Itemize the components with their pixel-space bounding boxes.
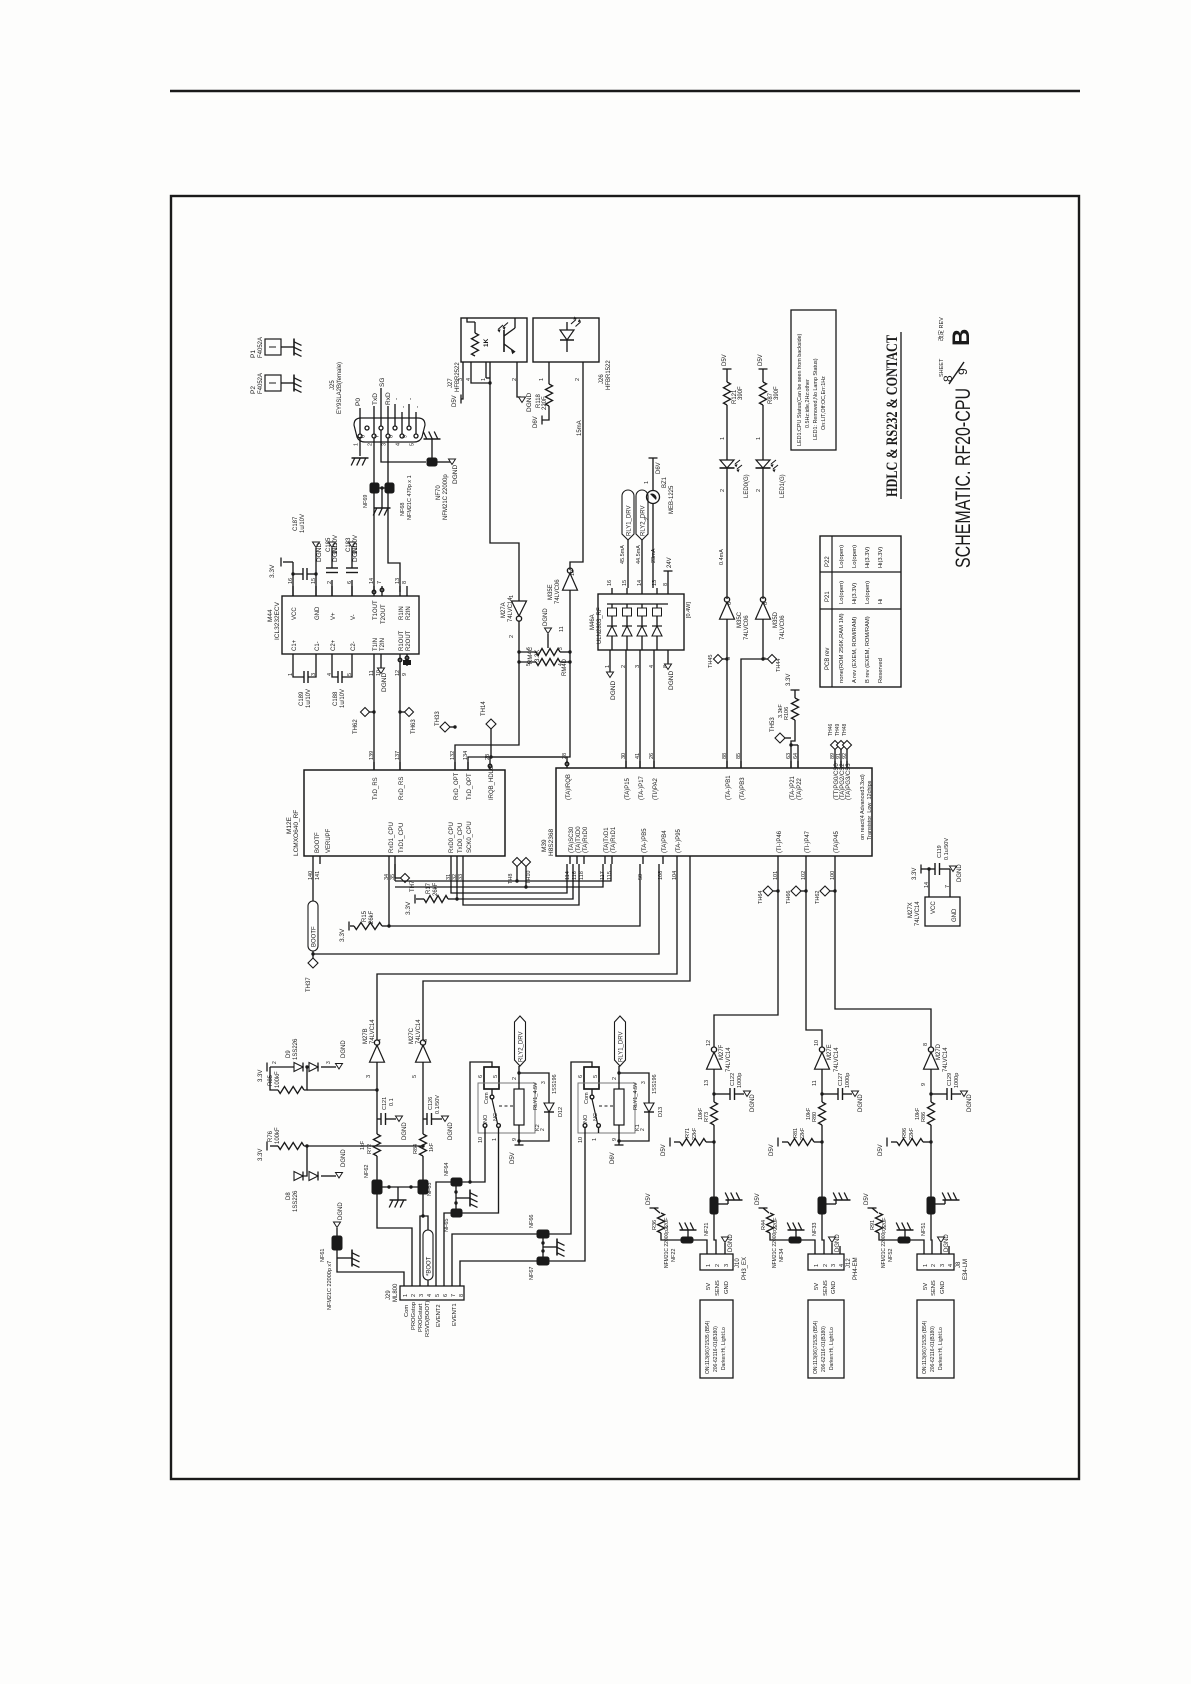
svg-text:4: 4 bbox=[396, 443, 402, 446]
ground (chassis) at NF51 bbox=[935, 1203, 945, 1205]
resistor R85 100kF bbox=[304, 1067, 307, 1090]
svg-text:NF65: NF65 bbox=[444, 1219, 450, 1232]
svg-text:*BOOT: *BOOT bbox=[427, 1256, 433, 1276]
pin 3 of M46A bbox=[639, 650, 641, 658]
svg-text:1000p: 1000p bbox=[954, 1073, 960, 1088]
svg-text:RxD0_CPU: RxD0_CPU bbox=[449, 822, 455, 853]
wire M35E input from TxD_OPT bbox=[468, 590, 570, 770]
svg-text:1u/10V: 1u/10V bbox=[340, 689, 346, 708]
svg-text:NF51: NF51 bbox=[921, 1223, 927, 1236]
relay K1 outline bbox=[578, 1083, 635, 1133]
svg-text:P0: P0 bbox=[355, 398, 362, 406]
svg-text:PROGstart: PROGstart bbox=[418, 1303, 424, 1332]
wire GND pin to DGND bbox=[315, 574, 317, 596]
wire M39 pin104 to M27B bbox=[377, 864, 677, 1040]
svg-text:NO: NO bbox=[483, 1114, 489, 1123]
pin 8 of M46A bbox=[667, 588, 669, 594]
DGND above NF61 bbox=[336, 1228, 338, 1236]
svg-text:12: 12 bbox=[706, 1040, 712, 1046]
svg-text:(TI-)P47: (TI-)P47 bbox=[805, 830, 811, 853]
power D6V at BZ1 bbox=[649, 457, 658, 459]
svg-text:9: 9 bbox=[403, 435, 409, 438]
svg-text:DGND: DGND bbox=[543, 608, 549, 626]
svg-text:SG: SG bbox=[379, 378, 386, 387]
power D5V / resistor R81 22kF bbox=[777, 1138, 779, 1147]
svg-text:R85: R85 bbox=[268, 1074, 274, 1086]
svg-text:3: 3 bbox=[641, 1081, 647, 1084]
wire pin34 / pin50 net bbox=[388, 864, 390, 926]
svg-text:50: 50 bbox=[638, 874, 644, 880]
wire pin4/pin1 junction bbox=[471, 372, 490, 383]
svg-text:NFM21C 470p x 1: NFM21C 470p x 1 bbox=[407, 475, 413, 520]
resistor R76 100kF bbox=[278, 1143, 304, 1150]
pin 114 ((TA)SC30) of M39 bbox=[569, 856, 571, 864]
svg-text:8: 8 bbox=[923, 1043, 929, 1046]
svg-text:5: 5 bbox=[526, 663, 532, 666]
svg-text:TH46: TH46 bbox=[828, 724, 834, 736]
page header rule bbox=[170, 90, 1080, 92]
capacitor C122 1000p bbox=[714, 1093, 730, 1095]
svg-text:T1IN: T1IN bbox=[373, 638, 379, 651]
svg-text:T2IN: T2IN bbox=[380, 638, 386, 651]
wire M27D input chain bbox=[930, 1069, 932, 1102]
pin 6 (V-) of M44 bbox=[351, 586, 353, 596]
svg-text:TH10: TH10 bbox=[526, 871, 532, 884]
ground (chassis) above NF70 bbox=[431, 439, 433, 458]
pin 2 (V+) of M44 bbox=[331, 586, 333, 596]
svg-text:Reserved: Reserved bbox=[878, 658, 884, 683]
dual diode D8 1SS226 bbox=[294, 1146, 307, 1176]
svg-text:M35D: M35D bbox=[773, 611, 779, 628]
pin 50 ((TA-)PB5) of M39 bbox=[642, 856, 644, 864]
svg-text:J12: J12 bbox=[846, 1258, 852, 1268]
svg-text:DGND: DGND bbox=[316, 543, 323, 562]
svg-text:D8: D8 bbox=[286, 1192, 292, 1200]
svg-text:RxD1_CPU: RxD1_CPU bbox=[389, 822, 395, 853]
test point TH44 bbox=[761, 657, 764, 660]
ground (chassis) at NF61 bbox=[337, 1257, 352, 1259]
wire bead taps to ground bbox=[542, 1238, 544, 1257]
svg-text:(TA)PG3/CS3: (TA)PG3/CS3 bbox=[846, 763, 852, 800]
svg-text:15mA: 15mA bbox=[577, 420, 583, 436]
svg-text:5V: 5V bbox=[814, 1283, 820, 1290]
svg-text:SENS: SENS bbox=[715, 1280, 721, 1296]
capacitor C188 1u/10V bbox=[332, 664, 338, 677]
wire M39 pin to M27D bbox=[835, 864, 931, 1047]
svg-text:C126: C126 bbox=[428, 1097, 434, 1110]
pin 9 of J25 bbox=[407, 426, 411, 430]
wire bbox=[281, 382, 294, 384]
DGND at M46A pin8 bbox=[667, 658, 669, 664]
svg-text:6: 6 bbox=[361, 435, 367, 438]
pin 4 of J27 bbox=[470, 362, 472, 372]
wire inside J27 bbox=[467, 318, 475, 322]
svg-text:9: 9 bbox=[612, 1138, 618, 1141]
svg-text:3.3V: 3.3V bbox=[786, 674, 792, 686]
svg-text:RxD_RS: RxD_RS bbox=[399, 777, 405, 800]
svg-text:6: 6 bbox=[526, 647, 532, 650]
svg-text:NC: NC bbox=[493, 1113, 499, 1121]
svg-text:MEB-1225: MEB-1225 bbox=[669, 485, 675, 514]
capacitor C187 1u/10V bbox=[293, 573, 303, 575]
svg-text:2: 2 bbox=[823, 1264, 829, 1267]
svg-text:GND: GND bbox=[724, 1281, 730, 1294]
svg-text:1: 1 bbox=[756, 437, 762, 440]
svg-text:132: 132 bbox=[450, 751, 456, 760]
svg-text:9: 9 bbox=[956, 368, 970, 375]
svg-text:DGND: DGND bbox=[526, 393, 533, 412]
svg-text:13: 13 bbox=[395, 578, 401, 584]
test point TH64 bbox=[776, 889, 779, 892]
diode D12 1SS196 bbox=[519, 1073, 549, 1103]
svg-text:BZ1: BZ1 bbox=[662, 476, 668, 488]
wire BOOTF to M39 pin108 bbox=[313, 864, 659, 954]
test point TH37 bbox=[312, 951, 314, 958]
svg-text:1000p: 1000p bbox=[737, 1073, 743, 1088]
wire bead to connector pin2 bbox=[931, 1214, 932, 1254]
wire bbox=[762, 405, 764, 460]
svg-text:H8S2368: H8S2368 bbox=[548, 829, 555, 856]
pin 115 ((TA)RxD1) of M39 bbox=[611, 856, 613, 864]
svg-text:M12E: M12E bbox=[286, 816, 293, 834]
wire J27 output to M27A bbox=[490, 362, 519, 601]
DGND at RM4 bbox=[545, 628, 552, 634]
wire K2 coil to D5V bbox=[518, 1125, 520, 1145]
DGND arrow bbox=[349, 542, 356, 548]
svg-text:3: 3 bbox=[382, 443, 388, 446]
svg-text:P1: P1 bbox=[250, 350, 257, 358]
DGND to connector pin3 bbox=[940, 1243, 942, 1254]
svg-text:22kF: 22kF bbox=[800, 1127, 806, 1140]
svg-text:SCHEMATIC. RF20-CPU: SCHEMATIC. RF20-CPU bbox=[952, 388, 975, 568]
power 3.3V rail bbox=[928, 869, 930, 890]
pin 63 ((TA-)P21) of M39 bbox=[790, 761, 792, 768]
pin 13 (R1IN) of M44 bbox=[399, 586, 401, 596]
ground (chassis) at NF64/NF65 bbox=[469, 1190, 471, 1207]
power 3.3V at R76 bbox=[266, 1142, 268, 1151]
svg-text:E34-LM: E34-LM bbox=[963, 1259, 969, 1280]
DGND arrow at NF70 bbox=[449, 459, 456, 465]
svg-text:(TA)PB3: (TA)PB3 bbox=[740, 777, 746, 800]
DGND at J27 pin2 bbox=[517, 372, 521, 397]
svg-text:R1OUT: R1OUT bbox=[399, 630, 405, 651]
svg-text:Lo(open): Lo(open) bbox=[865, 581, 871, 604]
ferrite bead NF68 bbox=[385, 483, 394, 493]
pin 30 ((TA)P15) of M39 bbox=[625, 761, 627, 768]
svg-text:139: 139 bbox=[369, 751, 375, 760]
svg-text:D5V: D5V bbox=[864, 1193, 870, 1205]
svg-text:VERUPF: VERUPF bbox=[326, 828, 332, 853]
note box LED1 CPU status bbox=[791, 310, 836, 450]
svg-text:R2OUT: R2OUT bbox=[406, 630, 412, 651]
power 24V at M46A pin8 bbox=[664, 570, 673, 572]
svg-text:D5V: D5V bbox=[722, 354, 728, 366]
ground (chassis) below beads bbox=[374, 507, 391, 509]
svg-text:SCK0_CPU: SCK0_CPU bbox=[467, 821, 473, 853]
DGND arrow bbox=[329, 542, 336, 548]
pin 100 ((TA)P45) of M39 bbox=[834, 856, 836, 864]
net label RLY1_DRV pill at K1 bbox=[615, 1016, 626, 1066]
DGND at T2IN bbox=[380, 664, 382, 668]
wire M39 pin to M27F bbox=[714, 864, 778, 1047]
test point TH8 bbox=[513, 858, 522, 867]
resistor R84 1kF bbox=[420, 1134, 427, 1156]
svg-text:C122: C122 bbox=[730, 1073, 736, 1086]
svg-text:3: 3 bbox=[940, 1264, 946, 1267]
svg-text:NFM21C 22000p x: NFM21C 22000p x bbox=[664, 1226, 670, 1268]
net label BOOTF pill bbox=[312, 864, 314, 901]
net label RLY1_DRV pill bbox=[622, 490, 634, 540]
resistor R91 220F bbox=[872, 1208, 878, 1213]
svg-text:J29: J29 bbox=[386, 1290, 392, 1300]
note box at J8 bbox=[917, 1300, 954, 1378]
svg-text:3.3V: 3.3V bbox=[258, 1070, 264, 1082]
svg-text:4: 4 bbox=[558, 663, 564, 666]
inverter gate M27A 74LVC14 bbox=[512, 601, 527, 616]
svg-text:NC: NC bbox=[593, 1113, 599, 1121]
wire M27E input chain bbox=[821, 1069, 823, 1102]
svg-text:M27E: M27E bbox=[827, 1044, 833, 1060]
pin 14 (T1OUT) of M44 bbox=[373, 586, 375, 596]
svg-text:TH14: TH14 bbox=[481, 701, 487, 716]
svg-text:EVENT1: EVENT1 bbox=[452, 1303, 458, 1326]
LED LED1(G) bbox=[756, 460, 770, 468]
relay K1 contact header bbox=[584, 1067, 599, 1089]
wire D9 node to M27B input bbox=[307, 1089, 377, 1091]
svg-text:3: 3 bbox=[541, 1081, 547, 1084]
ferrite bead NF65 bbox=[451, 1209, 462, 1217]
svg-text:11: 11 bbox=[559, 626, 565, 632]
svg-text:(TA)RxD0: (TA)RxD0 bbox=[583, 826, 589, 853]
pin 4 (C2+) of M44 bbox=[331, 654, 333, 664]
svg-text:NF64: NF64 bbox=[444, 1163, 450, 1176]
capacitor C185 1u/10V bbox=[331, 580, 333, 596]
svg-text:10: 10 bbox=[570, 570, 576, 576]
svg-text:3: 3 bbox=[326, 1061, 332, 1064]
wire to bead NF52 bbox=[879, 1233, 898, 1240]
LED LED0(G) bbox=[720, 460, 734, 468]
svg-text:V+: V+ bbox=[331, 612, 337, 620]
net label RxD bbox=[387, 406, 389, 434]
pin 102 ((TI-)P47) of M39 bbox=[805, 856, 807, 864]
svg-text:VCC: VCC bbox=[292, 607, 298, 620]
svg-text:NO: NO bbox=[583, 1114, 589, 1123]
svg-text:M27A: M27A bbox=[501, 602, 507, 618]
resistor R80 10kF bbox=[819, 1102, 826, 1125]
resistor 1K inside J27 bbox=[474, 322, 476, 333]
svg-text:NF61: NF61 bbox=[320, 1249, 326, 1262]
driver cells inside M46A bbox=[607, 603, 668, 605]
svg-text:M27F: M27F bbox=[719, 1044, 725, 1060]
IC M27X 74LVC14 power bbox=[925, 897, 960, 926]
connector P1 F4052A bbox=[265, 339, 281, 355]
inverter gate M27C 74LVC14 bbox=[420, 1040, 425, 1045]
svg-text:none(ROM 256K,RAM 1M): none(ROM 256K,RAM 1M) bbox=[839, 613, 845, 683]
svg-text:(TA)P45: (TA)P45 bbox=[834, 830, 840, 853]
ground (chassis) at P1 bbox=[293, 339, 295, 356]
svg-text:7: 7 bbox=[377, 581, 383, 584]
svg-text:D6V: D6V bbox=[533, 416, 539, 428]
svg-text:R96: R96 bbox=[902, 1128, 908, 1138]
svg-text:R2IN: R2IN bbox=[406, 606, 412, 620]
svg-text:3.3V: 3.3V bbox=[258, 1149, 264, 1161]
svg-text:LED1: Removed,No Lamp Status): LED1: Removed,No Lamp Status) bbox=[813, 358, 819, 440]
power 3.3V at D9 bbox=[266, 1063, 268, 1072]
power 3.3V / resistor R17 26kF bbox=[414, 895, 416, 904]
svg-text:M46A: M46A bbox=[590, 614, 596, 630]
buzzer BZ1 MEB-1225 bbox=[647, 491, 660, 504]
svg-text:1SS226: 1SS226 bbox=[293, 1038, 299, 1060]
ground (chassis) at P2 bbox=[293, 375, 295, 392]
test point TH53 bbox=[775, 733, 785, 743]
svg-text:24V: 24V bbox=[667, 557, 673, 568]
svg-text:(TA)SC30: (TA)SC30 bbox=[569, 826, 575, 853]
svg-text:M35E: M35E bbox=[548, 584, 554, 600]
svg-text:R84: R84 bbox=[413, 1144, 419, 1154]
svg-text:7: 7 bbox=[375, 435, 381, 438]
svg-text:DGND: DGND bbox=[728, 1234, 734, 1252]
svg-text:(TA-)P95: (TA-)P95 bbox=[676, 828, 682, 853]
svg-text:114: 114 bbox=[565, 871, 571, 880]
wire SG line to NF70 bbox=[381, 430, 426, 462]
svg-text:390F: 390F bbox=[774, 386, 780, 400]
svg-text:SENS: SENS bbox=[823, 1280, 829, 1296]
resistor R87 390F bbox=[762, 369, 764, 382]
wire NF67 to J29 pin8 bbox=[460, 1261, 537, 1286]
pin 8 (R2IN) of M44 bbox=[406, 586, 408, 596]
ferrite bead NF61 bbox=[332, 1236, 342, 1250]
svg-text:13: 13 bbox=[704, 1080, 710, 1086]
svg-text:137: 137 bbox=[395, 751, 401, 760]
inverter gate M35C 74LVC06 bbox=[724, 597, 729, 602]
svg-text:R91: R91 bbox=[870, 1220, 876, 1230]
wire bead taps to ground bbox=[455, 1186, 457, 1209]
connector J12 PH4-EM bbox=[808, 1254, 844, 1270]
wire NF65 to J29 pin6 bbox=[444, 1213, 451, 1286]
test point TH66 bbox=[804, 889, 807, 892]
svg-text:TH66: TH66 bbox=[786, 891, 792, 904]
test point TH62 bbox=[833, 889, 836, 892]
svg-text:On:LIT,Off:OC,Err:1Hz: On:LIT,Off:OC,Err:1Hz bbox=[821, 376, 827, 430]
table PCB rev / P21 / P22 bbox=[820, 536, 901, 687]
net label RLY2_DRV pill bbox=[636, 490, 648, 540]
test point TH7 bbox=[394, 864, 396, 878]
IC M44 ICL3232ECV bbox=[282, 596, 419, 654]
svg-text:2: 2 bbox=[756, 489, 762, 492]
svg-text:3.3kF: 3.3kF bbox=[778, 704, 784, 718]
svg-text:C2+: C2+ bbox=[331, 639, 337, 651]
svg-text:NF33: NF33 bbox=[812, 1223, 818, 1236]
DGND at M46A pin1 bbox=[609, 658, 611, 672]
svg-text:NF66: NF66 bbox=[529, 1215, 535, 1228]
svg-text:VCC: VCC bbox=[931, 901, 937, 914]
svg-text:BOOTF: BOOTF bbox=[315, 832, 321, 853]
DGND arrow bbox=[950, 866, 957, 872]
svg-text:DGND: DGND bbox=[750, 1094, 756, 1112]
ferrite bead NF22 bbox=[681, 1237, 693, 1243]
power D5V / resistor R96 22kF bbox=[886, 1138, 888, 1147]
svg-text:Hi(3.3V): Hi(3.3V) bbox=[878, 547, 884, 568]
wire IRQB link M12E to M39 bbox=[490, 757, 567, 762]
pin 137 (RxD_RS) of M12E bbox=[399, 762, 401, 770]
svg-text:EVENT2: EVENT2 bbox=[436, 1304, 442, 1327]
svg-text:HDLC & RS232 & CONTACT: HDLC & RS232 & CONTACT bbox=[884, 334, 901, 497]
svg-text:R71: R71 bbox=[685, 1128, 691, 1138]
svg-text:M39: M39 bbox=[541, 839, 548, 852]
power D6V at R118 bbox=[542, 406, 549, 420]
ferrite bead NF52 bbox=[898, 1237, 910, 1243]
svg-text:3: 3 bbox=[366, 1075, 372, 1078]
net label P0 bbox=[359, 408, 361, 434]
svg-text:0.5Hz:idle,2Hz:other: 0.5Hz:idle,2Hz:other bbox=[805, 379, 811, 428]
svg-text:F4052A: F4052A bbox=[258, 373, 264, 394]
power D5V at R36 bbox=[650, 1207, 659, 1209]
svg-text:5: 5 bbox=[593, 1075, 599, 1078]
svg-text:1: 1 bbox=[509, 595, 515, 598]
svg-text:C189: C189 bbox=[299, 691, 305, 706]
svg-text:D9: D9 bbox=[286, 1050, 292, 1058]
resistor R44 220F bbox=[763, 1208, 769, 1213]
pin 7 of M27X bbox=[949, 890, 951, 897]
pin 101 ((TI-)P46) of M39 bbox=[777, 856, 779, 864]
svg-text:74LVC06: 74LVC06 bbox=[780, 615, 786, 640]
svg-text:5: 5 bbox=[412, 1075, 418, 1078]
wire M27B input chain bbox=[376, 1062, 378, 1134]
pin 85 ((TA)PB3) of M39 bbox=[740, 761, 742, 768]
svg-text:LCMXO640_RF: LCMXO640_RF bbox=[293, 810, 300, 856]
wire bead to connector pin2 bbox=[822, 1214, 824, 1254]
resistor RM4C 3.3K bbox=[536, 649, 560, 656]
svg-text:74LVC14: 74LVC14 bbox=[508, 597, 514, 622]
pin 2 of J27 bbox=[516, 362, 518, 372]
svg-text:SENS: SENS bbox=[931, 1280, 937, 1296]
svg-text:2: 2 bbox=[640, 1128, 646, 1131]
svg-text:-: - bbox=[400, 406, 407, 408]
wire pin1 to ground bbox=[359, 437, 361, 456]
svg-text:TH45: TH45 bbox=[708, 655, 714, 668]
pin 141 of M12E bbox=[319, 856, 321, 864]
svg-text:SHEET: SHEET bbox=[939, 358, 945, 377]
svg-text:D5V: D5V bbox=[510, 1152, 516, 1164]
svg-text:DGND: DGND bbox=[858, 1094, 864, 1112]
stub pin4 bbox=[948, 1246, 950, 1254]
svg-text:74LVC14: 74LVC14 bbox=[726, 1047, 732, 1072]
power D5V at J27 pin3 bbox=[461, 372, 463, 399]
svg-text:M27C: M27C bbox=[409, 1027, 415, 1044]
svg-text:1SS226: 1SS226 bbox=[293, 1190, 299, 1212]
svg-text:10: 10 bbox=[478, 1137, 484, 1143]
svg-text:100kF: 100kF bbox=[275, 1127, 281, 1144]
svg-text:R72: R72 bbox=[367, 1144, 373, 1154]
pin 7 (T2OUT) of M44 bbox=[381, 586, 383, 596]
svg-text:GND: GND bbox=[315, 606, 321, 620]
wire bead link bbox=[379, 487, 385, 489]
power 3.3V pull-up R106 3.3kF bbox=[791, 689, 800, 691]
svg-text:9: 9 bbox=[512, 1138, 518, 1141]
pin 1 (C1+) of M44 bbox=[292, 654, 294, 664]
svg-text:R36: R36 bbox=[652, 1220, 658, 1230]
wire M35D input from M39 pin85 bbox=[741, 619, 763, 768]
IC M12E LCMXO640_RF bbox=[304, 770, 505, 856]
opto receiver J27 HFBR2522 bbox=[461, 318, 527, 362]
net label RLY2_DRV pill at K2 bbox=[515, 1016, 526, 1066]
svg-text:4: 4 bbox=[948, 1264, 954, 1267]
diode D13 1SS196 bbox=[619, 1073, 649, 1103]
svg-text:1kF: 1kF bbox=[429, 1142, 435, 1152]
svg-text:134: 134 bbox=[463, 751, 469, 760]
wire bbox=[726, 405, 728, 460]
svg-text:T1OUT: T1OUT bbox=[373, 600, 379, 620]
